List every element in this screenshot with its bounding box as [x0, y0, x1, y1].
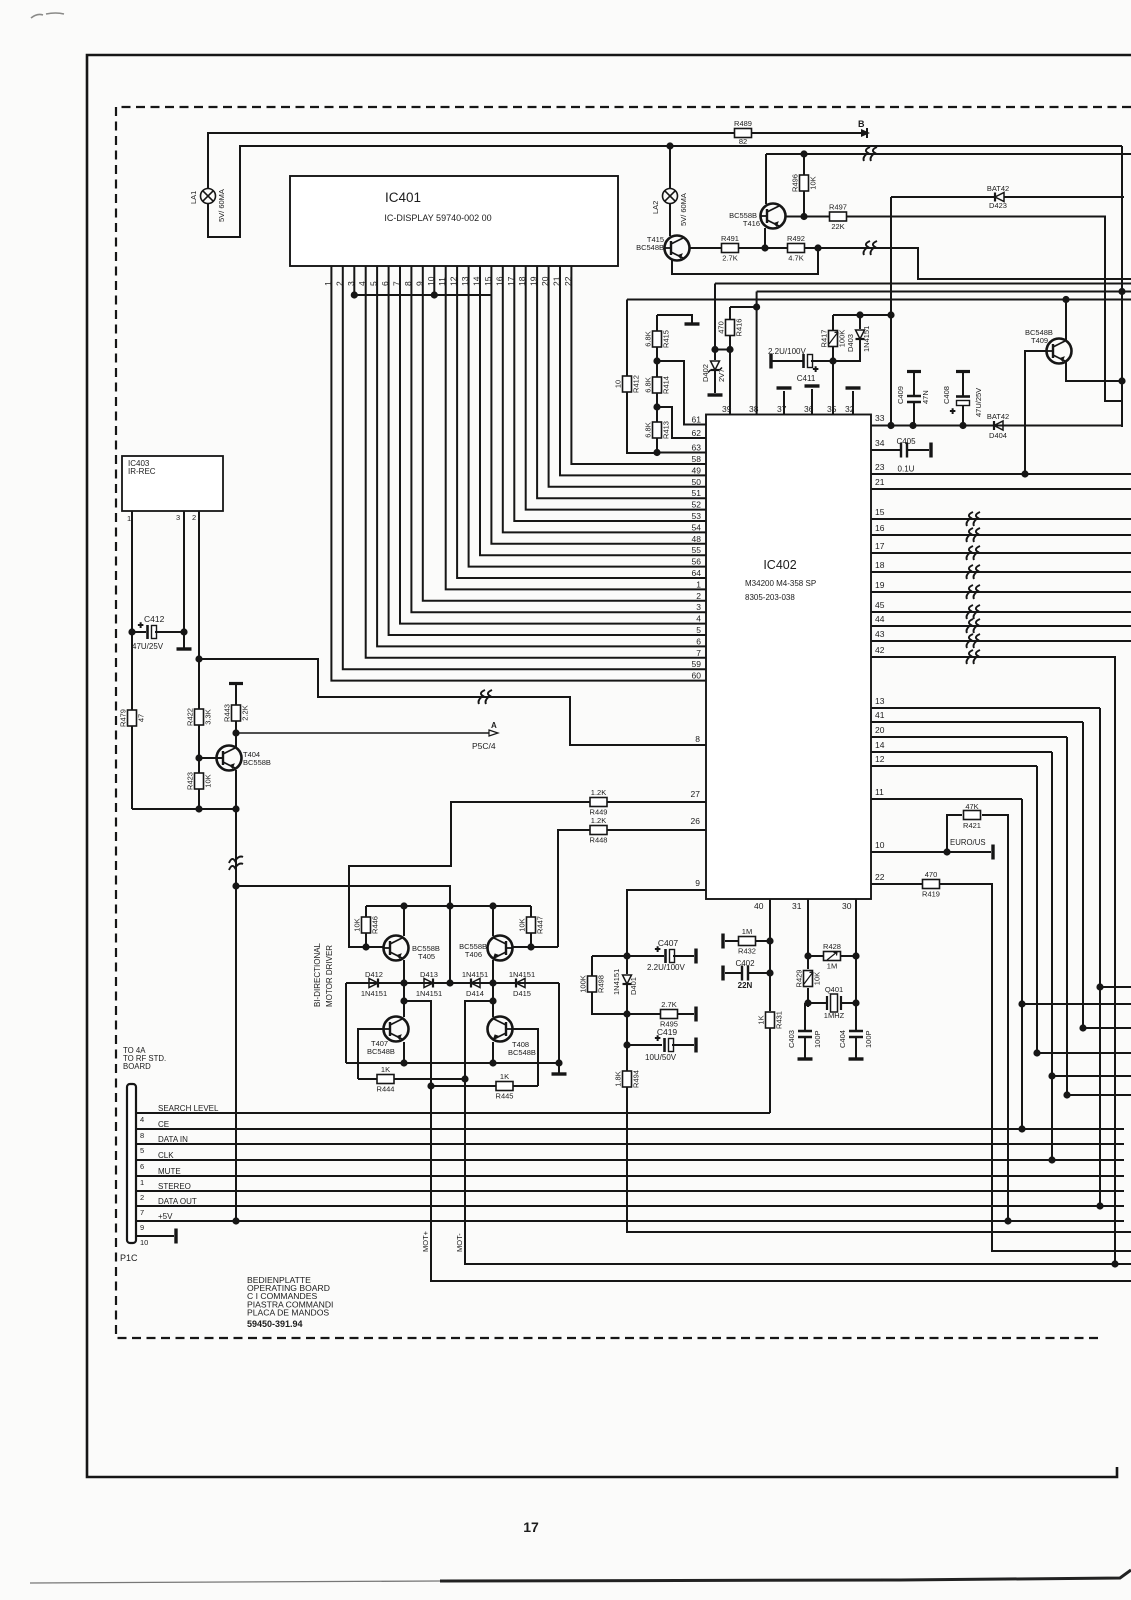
wire T406 base row — [513, 946, 558, 948]
capacitor C402 — [742, 966, 748, 981]
wire T408 base to R445 — [513, 1029, 538, 1086]
wire right feed down — [1121, 146, 1123, 427]
junction — [800, 213, 807, 220]
svg-text:1: 1 — [140, 1178, 144, 1187]
terminal C411 left — [769, 354, 772, 369]
wire R416 top row — [730, 306, 757, 308]
svg-text:14: 14 — [472, 276, 482, 286]
junction — [180, 628, 187, 635]
svg-text:R432: R432 — [738, 947, 756, 956]
svg-text:8: 8 — [140, 1131, 144, 1140]
transistor T415 — [664, 236, 690, 261]
capacitor C408 plates — [950, 397, 970, 417]
junction — [711, 346, 718, 353]
junction — [804, 999, 811, 1006]
junction — [232, 805, 239, 812]
svg-text:1N4151: 1N4151 — [416, 989, 442, 998]
svg-text:C405: C405 — [896, 437, 916, 446]
wire D403 top — [859, 315, 861, 329]
wire R416 to pin 39 — [729, 335, 731, 415]
resistor R449 — [590, 788, 608, 817]
wire C408 top — [962, 373, 964, 396]
wire R414-R413 — [656, 393, 658, 422]
junction — [195, 754, 202, 761]
wire IC401 pin 7 to IC402 pin 4 — [400, 266, 706, 624]
svg-text:A: A — [491, 721, 497, 730]
svg-text:6.8K: 6.8K — [644, 331, 653, 346]
wire R412 top — [626, 300, 628, 377]
svg-text:R431: R431 — [775, 1011, 784, 1029]
resistor R445 — [496, 1072, 514, 1101]
wire pin36 gnd — [811, 389, 813, 415]
wire R415-R414 — [656, 347, 658, 377]
wire to LA2 — [669, 146, 671, 188]
svg-text:R429: R429 — [795, 970, 804, 988]
resistor R497 — [829, 203, 847, 232]
svg-text:50: 50 — [692, 477, 702, 487]
svg-text:16: 16 — [875, 523, 885, 533]
svg-text:18: 18 — [875, 560, 885, 570]
svg-text:R443: R443 — [223, 704, 232, 722]
wire break mark — [967, 528, 981, 542]
wire pin 27 row — [607, 801, 706, 803]
wire P1C +5V row — [136, 1220, 1124, 1222]
diode D413 — [424, 979, 433, 988]
svg-text:10K: 10K — [809, 176, 818, 189]
svg-text:R416: R416 — [735, 319, 744, 337]
wire T416 collector — [786, 216, 830, 218]
svg-text:15: 15 — [483, 276, 493, 286]
wire IC401 pin 14 to IC402 pin 55 — [480, 266, 706, 555]
diode D415 — [516, 979, 525, 988]
svg-text:22: 22 — [875, 872, 885, 882]
svg-text:15: 15 — [875, 507, 885, 517]
svg-text:0.1U: 0.1U — [898, 465, 915, 474]
svg-text:35: 35 — [827, 404, 837, 414]
wire pin32 gnd — [852, 391, 854, 415]
svg-text:2: 2 — [192, 513, 196, 522]
wire R431 to search row — [769, 1028, 771, 1113]
diode D412 — [369, 979, 378, 988]
svg-text:MUTE: MUTE — [158, 1167, 181, 1176]
capacitor C412 — [138, 620, 157, 639]
wire R432 left — [725, 940, 738, 942]
junction — [959, 422, 966, 429]
junction — [804, 952, 811, 959]
svg-text:IC-DISPLAY 59740-002 00: IC-DISPLAY 59740-002 00 — [384, 213, 491, 223]
wire D403 bottom — [833, 339, 860, 361]
svg-text:D414: D414 — [466, 989, 484, 998]
svg-text:10: 10 — [614, 380, 623, 388]
svg-text:82: 82 — [739, 137, 747, 146]
svg-text:P5C/4: P5C/4 — [472, 741, 496, 751]
trimmer R429 — [795, 970, 822, 988]
svg-text:R447: R447 — [536, 916, 545, 934]
capacitor C404 plates — [849, 1031, 863, 1037]
wire MOT- line — [465, 1001, 1131, 1264]
junction — [446, 979, 453, 986]
svg-text:LA2: LA2 — [651, 201, 660, 214]
svg-text:4: 4 — [696, 614, 701, 624]
wire to T416 emitter — [764, 228, 766, 248]
wire pin 9 to D401 rail — [627, 890, 706, 956]
svg-text:38: 38 — [749, 404, 759, 414]
svg-text:STEREO: STEREO — [158, 1182, 191, 1191]
junction — [761, 244, 768, 251]
zener D402 — [708, 361, 722, 373]
junction — [400, 979, 407, 986]
wire T404 bottom row — [132, 808, 236, 810]
wire IC401 pin 8 to IC402 pin 3 — [411, 266, 706, 612]
wire C405 right — [907, 449, 929, 451]
svg-text:58: 58 — [692, 454, 702, 464]
wire R498 top stub — [591, 956, 593, 976]
svg-text:61: 61 — [692, 415, 702, 425]
wire T404 column to +5V — [235, 809, 237, 1221]
wire R422-R423 — [198, 725, 200, 773]
wire pin 13 vertical — [1099, 708, 1101, 1206]
resistor R492 — [787, 234, 805, 263]
wire +5V feed to motor rail — [236, 886, 450, 906]
wire T405 base row — [348, 946, 383, 948]
capacitor C405 — [901, 443, 907, 458]
wire R413 bottom — [656, 438, 658, 453]
wire node A row — [236, 732, 489, 734]
junction — [623, 1010, 630, 1017]
wire to IC402 pin 61 — [657, 361, 706, 425]
svg-text:B: B — [858, 119, 865, 129]
wire pin 21 row — [871, 488, 1131, 490]
svg-text:7: 7 — [140, 1208, 144, 1217]
svg-text:T416: T416 — [743, 219, 760, 228]
wire tap to edge — [1100, 986, 1131, 988]
svg-text:22N: 22N — [738, 981, 753, 990]
wire tap to edge — [1022, 1003, 1131, 1005]
svg-text:100K: 100K — [579, 975, 588, 993]
svg-text:C402: C402 — [735, 959, 755, 968]
wire IC402 pin 33 row — [871, 425, 1122, 427]
junction — [943, 848, 950, 855]
wire IC402 pin 11 row — [871, 798, 1022, 800]
svg-text:MOTOR DRIVER: MOTOR DRIVER — [325, 945, 334, 1007]
diode D401 — [623, 975, 632, 984]
wire R444 right — [394, 1078, 465, 1080]
svg-text:6.8K: 6.8K — [644, 422, 653, 437]
dashed board outline — [116, 107, 1131, 1338]
svg-text:39: 39 — [722, 404, 732, 414]
wire pin 14 vertical — [1051, 752, 1053, 1160]
svg-text:R414: R414 — [662, 376, 671, 394]
svg-text:17: 17 — [506, 276, 516, 286]
wire T404 collector — [235, 770, 237, 809]
wire diode row left leg — [345, 983, 347, 1063]
svg-text:20: 20 — [875, 725, 885, 735]
wire D402 top — [714, 284, 716, 361]
svg-text:47: 47 — [137, 714, 146, 722]
wire IC402 pin 20 row — [871, 736, 1067, 738]
svg-text:3: 3 — [696, 602, 701, 612]
svg-text:10: 10 — [875, 840, 885, 850]
wire T406 emitter — [492, 906, 494, 936]
wire R432 right — [756, 940, 770, 942]
svg-text:1M: 1M — [827, 962, 837, 971]
svg-text:C409: C409 — [896, 386, 905, 404]
junction — [766, 937, 773, 944]
junction — [814, 244, 821, 251]
svg-text:1: 1 — [127, 514, 131, 523]
svg-text:9: 9 — [140, 1223, 144, 1232]
wire R448 to T406 base — [558, 830, 590, 947]
wire motor top rail — [366, 905, 531, 907]
trimmer R428 — [823, 942, 841, 971]
diode D404 BAT42 — [994, 421, 1003, 430]
svg-text:BC548B: BC548B — [367, 1047, 395, 1056]
svg-text:45: 45 — [875, 600, 885, 610]
svg-text:P1C: P1C — [120, 1253, 138, 1263]
wire T409 base to pin 23 row — [1025, 351, 1046, 474]
wire T407 emitter — [403, 1042, 405, 1063]
svg-text:11: 11 — [437, 277, 447, 286]
wire IC402 pin 43 row — [871, 640, 1131, 642]
transistor T409 — [1046, 339, 1072, 364]
svg-text:IR-REC: IR-REC — [128, 467, 156, 476]
wire to T408 — [492, 983, 494, 1017]
svg-text:2: 2 — [334, 281, 344, 286]
wire break mark — [967, 565, 981, 579]
junction — [1021, 470, 1028, 477]
terminal R432 — [721, 934, 724, 949]
wire pin 38 column — [756, 292, 758, 415]
op-amp U IC402 microcontroller box — [706, 415, 871, 900]
wire IC402 pin 15 row — [871, 518, 1131, 520]
ground — [685, 322, 700, 325]
svg-text:11: 11 — [875, 787, 884, 797]
svg-text:R412: R412 — [632, 375, 641, 393]
wire R446 top — [365, 906, 367, 917]
wire tap to edge — [1037, 1052, 1131, 1054]
svg-text:R498: R498 — [597, 975, 606, 993]
svg-text:R421: R421 — [963, 821, 981, 830]
wire P1C CLK row — [136, 1159, 1124, 1161]
trimmer R417 — [820, 330, 847, 348]
svg-text:1K: 1K — [757, 1015, 766, 1024]
ground pin3 — [177, 647, 192, 650]
wire lamp supply row — [208, 146, 1122, 237]
wire IC403 pin3 column — [183, 511, 185, 648]
wire IC401 pin 19 to IC402 pin 51 — [537, 266, 706, 498]
svg-text:MOT+: MOT+ — [421, 1230, 430, 1252]
junction — [431, 291, 438, 298]
svg-text:D404: D404 — [989, 431, 1007, 440]
svg-text:5: 5 — [140, 1146, 144, 1155]
wire pin 34 to C405 — [871, 449, 901, 451]
junction — [1062, 296, 1069, 303]
svg-text:1N4151: 1N4151 — [462, 970, 488, 979]
wire break mark — [864, 241, 878, 255]
junction — [461, 1075, 468, 1082]
junction — [1018, 1125, 1025, 1132]
svg-text:8305-203-038: 8305-203-038 — [745, 593, 795, 602]
wire IC401 pin 5 to IC402 pin 6 — [377, 266, 706, 646]
wire P1C pin 10 stub — [136, 1235, 174, 1237]
wire IC401 pin 18 to IC402 pin 52 — [526, 266, 706, 510]
svg-text:3: 3 — [346, 281, 356, 286]
svg-text:C412: C412 — [144, 614, 165, 624]
svg-text:2: 2 — [696, 591, 701, 601]
svg-text:7: 7 — [696, 648, 701, 658]
svg-text:T405: T405 — [418, 952, 435, 961]
junction — [489, 902, 496, 909]
junction — [446, 902, 453, 909]
junction — [1063, 1091, 1070, 1098]
resistor R414 — [644, 376, 671, 394]
wire R447 bottom — [530, 933, 532, 947]
svg-text:D402: D402 — [701, 364, 710, 382]
terminal C402 — [721, 966, 724, 981]
svg-text:19: 19 — [875, 580, 885, 590]
terminal C407 — [694, 949, 697, 964]
wire break mark — [967, 585, 981, 599]
wire R496 bottom — [803, 191, 805, 217]
wire IC402 pin 17 row — [871, 552, 1131, 554]
wire R494 column to right edge — [627, 1087, 1131, 1232]
wire D423 cathode — [1004, 196, 1124, 198]
wire D402-R416 link — [715, 349, 730, 351]
svg-text:EURO/US: EURO/US — [950, 838, 986, 847]
wire P1C CE row — [136, 1128, 1124, 1130]
svg-text:CLK: CLK — [158, 1151, 174, 1160]
svg-text:43: 43 — [875, 629, 885, 639]
junction — [427, 1082, 434, 1089]
junction — [195, 655, 202, 662]
junction — [1079, 1024, 1086, 1031]
junction — [653, 449, 660, 456]
svg-text:55: 55 — [692, 545, 702, 555]
svg-text:63: 63 — [692, 443, 702, 453]
wire C412 left — [132, 631, 146, 633]
svg-text:470: 470 — [925, 870, 938, 879]
transistor T407 — [383, 1017, 409, 1042]
svg-text:MOT-: MOT- — [455, 1233, 464, 1252]
svg-text:26: 26 — [691, 816, 701, 826]
wire R496 top — [803, 154, 805, 175]
wire ground stub — [558, 1063, 560, 1073]
wire T405 collector — [403, 960, 405, 983]
svg-text:D413: D413 — [420, 970, 438, 979]
svg-text:CE: CE — [158, 1120, 169, 1129]
svg-text:R417: R417 — [820, 330, 829, 348]
svg-text:6: 6 — [696, 636, 701, 646]
wire R491 to R492 — [739, 247, 787, 249]
wire tap to edge — [1067, 1094, 1131, 1096]
svg-text:R496: R496 — [791, 174, 800, 192]
wire C411 right — [811, 360, 833, 362]
svg-text:C419: C419 — [657, 1027, 678, 1037]
transistor T404 — [216, 746, 242, 771]
svg-text:M34200 M4-358 SP: M34200 M4-358 SP — [745, 579, 816, 588]
wire T415 emitter loop — [672, 248, 818, 274]
svg-text:49: 49 — [692, 465, 702, 475]
wire IC402 pin 18 row — [871, 571, 1131, 573]
wire R412 bottom to pin63 node — [627, 392, 657, 453]
junction — [362, 943, 369, 950]
wire pin37 gnd — [783, 391, 785, 415]
junction — [351, 291, 358, 298]
svg-text:6.8K: 6.8K — [644, 377, 653, 392]
svg-text:R413: R413 — [662, 421, 671, 439]
junction — [829, 357, 836, 364]
wire pin 20 vertical — [1066, 737, 1068, 1095]
resistor R412 — [614, 375, 641, 393]
capacitor C403 plates — [798, 1031, 812, 1037]
resistor R416 — [717, 319, 744, 337]
wire break mark — [229, 857, 243, 871]
junction — [800, 150, 807, 157]
wire IC401 pin 22 to IC402 pin 58 — [571, 266, 706, 464]
wire IC401 pin 17 to IC402 pin 53 — [514, 266, 706, 521]
svg-text:R489: R489 — [734, 119, 752, 128]
svg-text:T406: T406 — [465, 950, 482, 959]
wire C402 right — [748, 972, 770, 974]
resistor R448 — [590, 816, 608, 845]
ground pin32 — [846, 386, 861, 389]
junction — [1118, 377, 1125, 384]
wire pin 40 column — [769, 899, 771, 1011]
wire C412 right — [155, 631, 184, 633]
wire C404 bottom — [855, 1037, 857, 1058]
svg-text:2.2U/100V: 2.2U/100V — [768, 347, 806, 356]
wire IC402 pin 44 row — [871, 625, 1131, 627]
svg-text:19: 19 — [529, 276, 539, 286]
junction — [1096, 983, 1103, 990]
wire IC401 pin 21 to IC402 pin 49 — [560, 266, 706, 475]
resistor R446 — [353, 916, 380, 934]
wire MOT+ line — [404, 1001, 1131, 1281]
wire Q401 right — [841, 1002, 856, 1004]
crystal Q401 — [827, 994, 841, 1012]
ground pin37 — [777, 386, 792, 389]
wire supply row upper — [766, 153, 1131, 155]
wire C403 bottom — [804, 1037, 806, 1058]
scan line bottom — [30, 1581, 440, 1583]
connector P1C body — [127, 1084, 136, 1243]
svg-text:100P: 100P — [813, 1030, 822, 1048]
supply bar R443 — [229, 682, 243, 685]
wire C403 stem — [807, 1003, 809, 1007]
wire T407 base to R444 — [358, 1029, 383, 1079]
lamp LA1 — [201, 189, 216, 204]
junction — [400, 902, 407, 909]
svg-text:BAT42: BAT42 — [987, 184, 1009, 193]
wire R446 bottom — [365, 933, 367, 947]
wire IC402 pin 16 row — [871, 534, 1131, 536]
svg-text:BC548B: BC548B — [636, 243, 664, 252]
capacitor C409 — [907, 370, 921, 373]
svg-text:60: 60 — [692, 671, 702, 681]
svg-text:1: 1 — [696, 579, 701, 589]
wire P1C STEREO row — [136, 1190, 1124, 1192]
svg-text:22: 22 — [563, 276, 573, 286]
svg-text:10K: 10K — [813, 972, 822, 985]
svg-text:R415: R415 — [662, 330, 671, 348]
junction — [753, 303, 760, 310]
junction — [726, 346, 733, 353]
svg-text:59: 59 — [692, 659, 702, 669]
svg-text:1M: 1M — [742, 927, 752, 936]
terminal C405 — [929, 443, 932, 458]
svg-text:R479: R479 — [119, 709, 128, 727]
svg-text:R491: R491 — [721, 234, 739, 243]
